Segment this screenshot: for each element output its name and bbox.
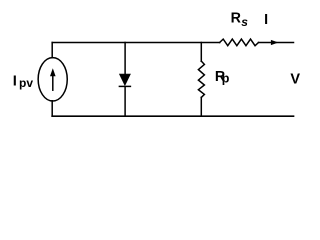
wire Rp branch lower — [200, 97, 202, 116]
wire left branch lower — [51, 101, 53, 116]
current source arrow head — [50, 68, 56, 76]
current source arrow shaft — [52, 76, 54, 90]
diode cathode bar — [119, 85, 130, 87]
svg-text:pv: pv — [19, 76, 33, 90]
svg-text:I: I — [264, 12, 268, 28]
svg-text:p: p — [222, 71, 230, 85]
diode anode triangle — [119, 74, 130, 85]
wire left branch upper — [51, 43, 53, 58]
wire top rail right segment to output terminal — [259, 42, 294, 44]
wire bottom rail — [52, 115, 293, 117]
wire Rp branch upper — [200, 43, 202, 62]
output current I arrow head — [271, 40, 279, 45]
svg-text:s: s — [241, 15, 248, 29]
wire top rail left segment — [52, 42, 220, 44]
wire diode branch lower — [124, 87, 126, 116]
svg-text:I: I — [13, 74, 17, 90]
resistor Rs zigzag — [220, 39, 259, 46]
current source I_pv ellipse — [38, 58, 67, 101]
wire diode branch upper — [124, 43, 126, 75]
svg-text:V: V — [290, 72, 300, 88]
resistor Rp zigzag — [198, 61, 204, 97]
svg-text:R: R — [231, 10, 242, 26]
